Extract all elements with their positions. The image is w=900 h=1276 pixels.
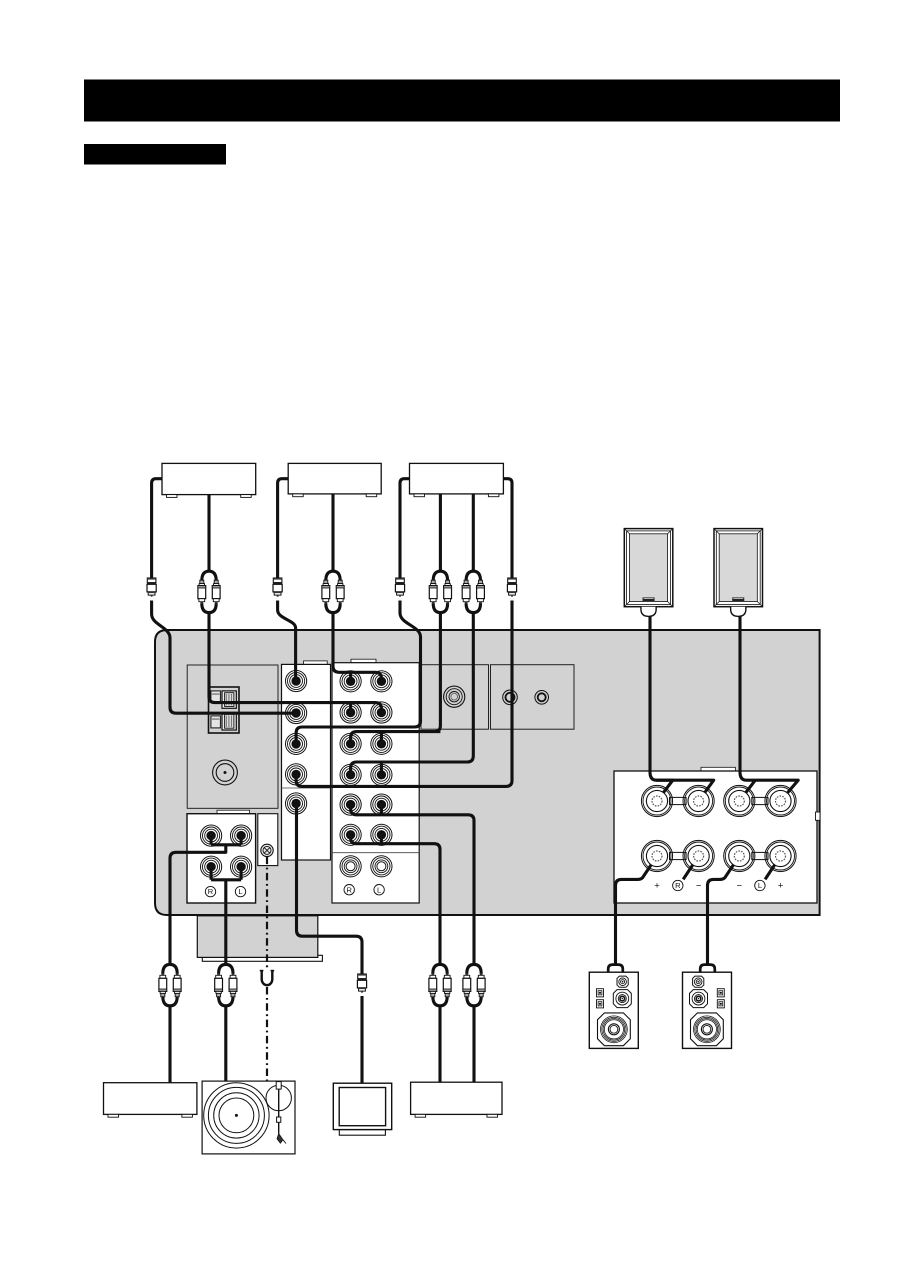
svg-text:L: L [238,887,242,896]
svg-text:−: − [737,881,743,892]
svg-text:L: L [377,885,381,894]
svg-text:+: + [778,881,784,892]
svg-text:R: R [208,887,214,896]
svg-text:L: L [758,881,762,890]
svg-text:R: R [346,885,352,894]
svg-text:−: − [696,881,702,892]
svg-text:+: + [654,881,660,892]
svg-text:R: R [675,881,681,890]
